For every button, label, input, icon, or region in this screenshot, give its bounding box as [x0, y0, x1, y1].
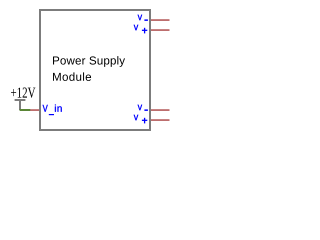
- pin name V- (top): [138, 15, 148, 21]
- power bar: [15, 99, 26, 101]
- pin V+ (top right): [151, 30, 170, 31]
- module U1 body: [39, 9, 151, 131]
- +12V value label: [11, 88, 35, 98]
- module name text line 2: [53, 72, 91, 81]
- pin V+ (bottom right): [151, 120, 170, 121]
- power symbol +12V: [11, 88, 35, 110]
- pin V- (bottom right): [151, 110, 170, 111]
- pin name V- (bottom): [138, 105, 148, 111]
- pin V_in (left): [30, 110, 40, 111]
- module name text line 1: [53, 56, 125, 67]
- pin V- (top right): [151, 20, 170, 21]
- pin name V_in: [43, 105, 62, 116]
- pin name V+ (bottom): [134, 115, 147, 124]
- power stem: [19, 100, 21, 110]
- wire W1 from +12V to V_in: [20, 109, 31, 111]
- pin name V+ (top): [134, 25, 147, 34]
